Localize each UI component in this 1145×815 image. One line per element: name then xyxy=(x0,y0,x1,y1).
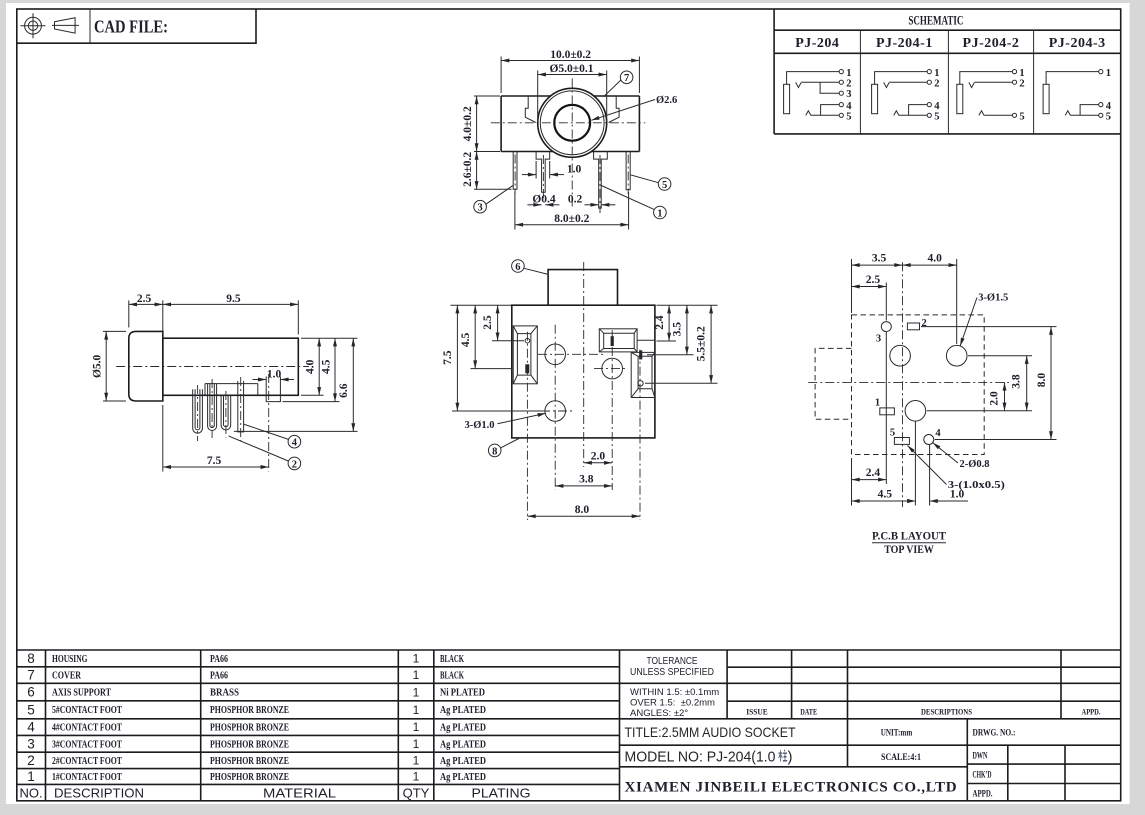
svg-text:7.5: 7.5 xyxy=(442,350,454,365)
svg-text:7.5: 7.5 xyxy=(207,455,222,467)
svg-text:2.5: 2.5 xyxy=(866,274,881,286)
svg-text:4.5: 4.5 xyxy=(460,332,472,347)
svg-text:8: 8 xyxy=(492,446,497,457)
svg-text:2.0: 2.0 xyxy=(988,391,1000,406)
svg-text:0.2: 0.2 xyxy=(568,194,583,206)
svg-text:WITHIN 1.5: ±0.1mm: WITHIN 1.5: ±0.1mm xyxy=(630,687,719,698)
svg-text:APPD.: APPD. xyxy=(973,790,993,800)
svg-text:4.5: 4.5 xyxy=(878,489,893,501)
svg-text:2.4: 2.4 xyxy=(654,315,666,330)
svg-text:2: 2 xyxy=(846,78,851,89)
svg-text:PHOSPHOR BRONZE: PHOSPHOR BRONZE xyxy=(210,739,289,750)
svg-text:1: 1 xyxy=(413,770,420,784)
svg-text:Ø5.0: Ø5.0 xyxy=(92,354,104,378)
svg-text:UNLESS SPECIFIED: UNLESS SPECIFIED xyxy=(630,666,714,678)
svg-text:5: 5 xyxy=(662,180,667,191)
svg-text:2: 2 xyxy=(922,318,927,329)
svg-text:PJ-204-1: PJ-204-1 xyxy=(876,36,933,51)
svg-text:3-(1.0x0.5): 3-(1.0x0.5) xyxy=(948,480,1006,491)
svg-text:5: 5 xyxy=(1019,112,1024,123)
svg-text:DWN: DWN xyxy=(973,751,988,761)
svg-text:1: 1 xyxy=(413,754,420,768)
svg-text:PHOSPHOR BRONZE: PHOSPHOR BRONZE xyxy=(210,756,289,767)
svg-text:Ag PLATED: Ag PLATED xyxy=(440,756,486,767)
svg-text:10.0±0.2: 10.0±0.2 xyxy=(550,49,591,61)
svg-text:4.0±0.2: 4.0±0.2 xyxy=(462,106,474,141)
svg-text:DESCRIPTIONS: DESCRIPTIONS xyxy=(921,707,972,717)
svg-text:3.8: 3.8 xyxy=(579,474,594,486)
svg-text:APPD.: APPD. xyxy=(1082,707,1101,717)
svg-text:2-Ø0.8: 2-Ø0.8 xyxy=(960,459,990,470)
svg-text:PHOSPHOR BRONZE: PHOSPHOR BRONZE xyxy=(210,705,289,716)
svg-text:ANGLES: ±2°: ANGLES: ±2° xyxy=(630,708,688,719)
svg-text:6: 6 xyxy=(27,685,35,700)
svg-text:BRASS: BRASS xyxy=(210,688,239,699)
svg-text:5: 5 xyxy=(890,428,895,439)
svg-text:PHOSPHOR BRONZE: PHOSPHOR BRONZE xyxy=(210,722,289,733)
svg-text:5.5±0.2: 5.5±0.2 xyxy=(695,326,707,361)
svg-text:PJ-204: PJ-204 xyxy=(795,36,839,51)
svg-text:Ag PLATED: Ag PLATED xyxy=(440,739,486,750)
svg-text:5: 5 xyxy=(846,112,851,123)
svg-text:3: 3 xyxy=(846,89,851,100)
svg-text:8.0: 8.0 xyxy=(575,504,590,516)
svg-text:1: 1 xyxy=(413,737,420,751)
svg-text:TOP VIEW: TOP VIEW xyxy=(884,542,934,556)
svg-text:1: 1 xyxy=(413,720,420,734)
svg-text:2: 2 xyxy=(27,753,35,768)
svg-text:Ø0.4: Ø0.4 xyxy=(532,194,556,206)
svg-text:4#CONTACT FOOT: 4#CONTACT FOOT xyxy=(52,722,122,733)
svg-text:1: 1 xyxy=(875,398,880,409)
svg-text:4.5: 4.5 xyxy=(320,359,332,374)
svg-text:5: 5 xyxy=(934,112,939,123)
svg-text:1: 1 xyxy=(934,68,939,79)
svg-text:9.5: 9.5 xyxy=(226,293,241,305)
svg-text:Ni PLATED: Ni PLATED xyxy=(440,688,485,699)
svg-text:4.0: 4.0 xyxy=(305,359,317,374)
svg-text:HOUSING: HOUSING xyxy=(52,654,88,665)
svg-text:1: 1 xyxy=(1019,68,1024,79)
svg-text:TITLE:2.5MM AUDIO SOCKET: TITLE:2.5MM AUDIO SOCKET xyxy=(625,724,796,740)
svg-text:DESCRIPTION: DESCRIPTION xyxy=(54,786,144,801)
svg-text:PJ-204-2: PJ-204-2 xyxy=(963,36,1020,51)
svg-text:Ø5.0±0.1: Ø5.0±0.1 xyxy=(549,63,593,75)
svg-text:NO.: NO. xyxy=(19,786,42,801)
svg-text:2: 2 xyxy=(1019,78,1024,89)
svg-text:1: 1 xyxy=(413,703,420,717)
svg-text:1: 1 xyxy=(413,668,420,682)
svg-text:3.5: 3.5 xyxy=(872,253,887,265)
svg-text:2#CONTACT FOOT: 2#CONTACT FOOT xyxy=(52,756,122,767)
svg-text:5#CONTACT FOOT: 5#CONTACT FOOT xyxy=(52,705,122,716)
svg-text:DRWG. NO.:: DRWG. NO.: xyxy=(973,729,1016,739)
svg-text:8: 8 xyxy=(27,651,35,666)
svg-text:BLACK: BLACK xyxy=(440,670,465,681)
svg-text:8.0±0.2: 8.0±0.2 xyxy=(554,213,589,225)
svg-text:SCALE:4:1: SCALE:4:1 xyxy=(881,753,921,763)
svg-text:5: 5 xyxy=(27,702,35,717)
svg-text:3: 3 xyxy=(477,203,482,214)
svg-text:ISSUE: ISSUE xyxy=(746,707,768,717)
svg-text:MATERIAL: MATERIAL xyxy=(263,786,336,801)
svg-text:7: 7 xyxy=(27,668,35,683)
svg-text:1.0: 1.0 xyxy=(267,368,282,380)
svg-text:2: 2 xyxy=(292,459,297,470)
svg-text:Ag PLATED: Ag PLATED xyxy=(440,772,486,783)
svg-text:4: 4 xyxy=(846,101,852,112)
svg-text:1: 1 xyxy=(27,769,35,784)
svg-text:8.0: 8.0 xyxy=(1036,373,1048,388)
svg-text:1.0: 1.0 xyxy=(567,164,582,176)
svg-text:XIAMEN JINBEILI ELECTRONICS CO: XIAMEN JINBEILI ELECTRONICS CO.,LTD xyxy=(625,780,958,796)
svg-text:1: 1 xyxy=(413,652,420,666)
svg-text:AXIS SUPPORT: AXIS SUPPORT xyxy=(52,688,111,699)
svg-text:CAD FILE:: CAD FILE: xyxy=(94,17,168,37)
svg-text:Ø2.6: Ø2.6 xyxy=(656,95,677,106)
svg-text:3: 3 xyxy=(27,737,35,752)
svg-text:SCHEMATIC: SCHEMATIC xyxy=(908,14,963,28)
svg-text:4: 4 xyxy=(935,428,941,439)
svg-text:3-Ø1.5: 3-Ø1.5 xyxy=(978,293,1008,304)
svg-text:3.5: 3.5 xyxy=(672,322,684,337)
svg-text:5: 5 xyxy=(1106,112,1111,123)
svg-text:DATE: DATE xyxy=(800,707,817,717)
svg-text:3.8: 3.8 xyxy=(1010,374,1022,389)
svg-text:PJ-204-3: PJ-204-3 xyxy=(1049,36,1106,51)
svg-text:UNIT:mm: UNIT:mm xyxy=(881,728,913,738)
svg-text:COVER: COVER xyxy=(52,670,81,681)
svg-text:1#CONTACT FOOT: 1#CONTACT FOOT xyxy=(52,772,122,783)
svg-text:CHK’D: CHK’D xyxy=(973,771,992,781)
svg-text:OVER 1.5: ±0.2mm: OVER 1.5: ±0.2mm xyxy=(630,698,715,709)
svg-text:3-Ø1.0: 3-Ø1.0 xyxy=(465,420,495,431)
svg-text:4: 4 xyxy=(27,720,35,735)
svg-text:4: 4 xyxy=(934,101,940,112)
svg-text:PHOSPHOR BRONZE: PHOSPHOR BRONZE xyxy=(210,772,289,783)
svg-text:2: 2 xyxy=(934,78,939,89)
svg-text:1: 1 xyxy=(657,208,662,219)
svg-text:Ag PLATED: Ag PLATED xyxy=(440,705,486,716)
svg-text:1: 1 xyxy=(413,686,420,700)
svg-text:7: 7 xyxy=(624,73,629,84)
svg-text:PLATING: PLATING xyxy=(472,786,531,801)
svg-text:3#CONTACT FOOT: 3#CONTACT FOOT xyxy=(52,739,122,750)
svg-text:4: 4 xyxy=(292,438,298,449)
svg-text:PA66: PA66 xyxy=(210,670,228,681)
svg-text:2.5: 2.5 xyxy=(137,293,152,305)
svg-text:QTY: QTY xyxy=(403,786,430,801)
svg-text:1: 1 xyxy=(1106,68,1111,79)
svg-text:4: 4 xyxy=(1106,101,1112,112)
svg-text:P.C.B LAYOUT: P.C.B LAYOUT xyxy=(872,529,946,543)
svg-text:6.6: 6.6 xyxy=(338,383,350,398)
svg-text:MODEL NO: PJ-204(1.0: MODEL NO: PJ-204(1.0 xyxy=(625,749,776,766)
svg-text:6: 6 xyxy=(515,262,520,273)
svg-text:PA66: PA66 xyxy=(210,654,228,665)
svg-text:BLACK: BLACK xyxy=(440,654,465,665)
svg-text:2.5: 2.5 xyxy=(482,315,494,330)
svg-text:4.0: 4.0 xyxy=(928,253,943,265)
svg-text:2.4: 2.4 xyxy=(866,467,881,479)
svg-text:3: 3 xyxy=(876,334,881,345)
svg-text:2.6±0.2: 2.6±0.2 xyxy=(462,152,474,187)
svg-text:Ag PLATED: Ag PLATED xyxy=(440,722,486,733)
svg-text:): ) xyxy=(788,749,793,766)
svg-text:2.0: 2.0 xyxy=(591,451,606,463)
svg-text:1: 1 xyxy=(846,68,851,79)
